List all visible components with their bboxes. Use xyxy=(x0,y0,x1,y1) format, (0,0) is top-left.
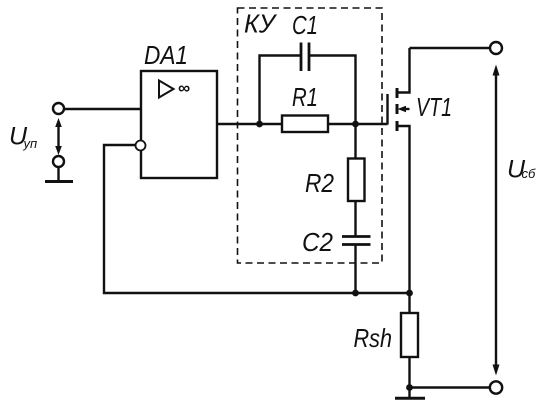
ground (output) xyxy=(395,397,425,400)
wire drain to top terminal xyxy=(410,47,491,49)
capacitor C2 xyxy=(342,237,371,245)
wire R2 branch top xyxy=(354,124,356,159)
svg-text:уп: уп xyxy=(23,136,38,151)
svg-text:R2: R2 xyxy=(305,168,334,198)
wire source to Rsh xyxy=(408,293,410,313)
resistor Rsh xyxy=(401,313,418,357)
wire R2 to C2 xyxy=(354,201,356,236)
dashed box KU xyxy=(238,8,383,263)
wire input to op-amp xyxy=(65,108,142,110)
resistor R2 xyxy=(348,159,365,202)
terminal output bottom xyxy=(490,381,502,393)
svg-text:DA1: DA1 xyxy=(144,40,188,70)
junction dots xyxy=(256,121,413,391)
capacitor C1 branch left wire xyxy=(260,56,301,125)
svg-text:R1: R1 xyxy=(292,82,318,112)
op-amp inverting input bubble xyxy=(136,141,146,151)
label Usb xyxy=(507,156,536,184)
terminal input bottom xyxy=(53,156,64,167)
transistor VT1 channel segments xyxy=(396,88,399,131)
label Uup xyxy=(9,123,37,152)
svg-text:Rsh: Rsh xyxy=(354,323,393,353)
node Uup arrow (double-headed) xyxy=(55,118,62,155)
terminal output top xyxy=(490,42,502,54)
transistor VT1 substrate arrow xyxy=(398,106,410,112)
resistor R1 xyxy=(282,116,328,133)
wire Rsh to ground node xyxy=(408,357,410,399)
wire op-amp output xyxy=(217,123,282,125)
transistor VT1 source lead xyxy=(397,126,410,293)
node junction feedback-source xyxy=(406,290,413,297)
op-amp gain triangle xyxy=(159,81,174,98)
capacitor C1 branch right wire xyxy=(310,56,356,125)
ground (input) xyxy=(45,167,73,182)
svg-text:VT1: VT1 xyxy=(416,92,452,122)
transistor VT1 drain lead xyxy=(397,48,410,93)
svg-text:сб: сб xyxy=(522,166,537,181)
node junction ground-right xyxy=(406,384,413,391)
transistor Q1 VT1 gate bar xyxy=(386,94,388,125)
wire C2 to feedback xyxy=(354,246,356,294)
svg-text:∞: ∞ xyxy=(178,79,190,98)
op-amp U1 DA1 body xyxy=(141,71,217,178)
node junction R1 right xyxy=(352,121,359,128)
wire feedback from bubble xyxy=(104,145,410,293)
node junction feedback-C2 xyxy=(352,290,359,297)
svg-text:КУ: КУ xyxy=(244,9,277,39)
node Usb arrow (double-headed) xyxy=(493,65,500,376)
svg-text:C2: C2 xyxy=(302,227,333,257)
wire bottom terminal xyxy=(410,386,490,388)
terminal input top xyxy=(53,103,64,114)
capacitor C1 xyxy=(301,43,309,72)
svg-text:C1: C1 xyxy=(292,10,318,40)
wire R1 output to gate xyxy=(328,123,388,125)
node junction R1 left xyxy=(256,121,263,128)
